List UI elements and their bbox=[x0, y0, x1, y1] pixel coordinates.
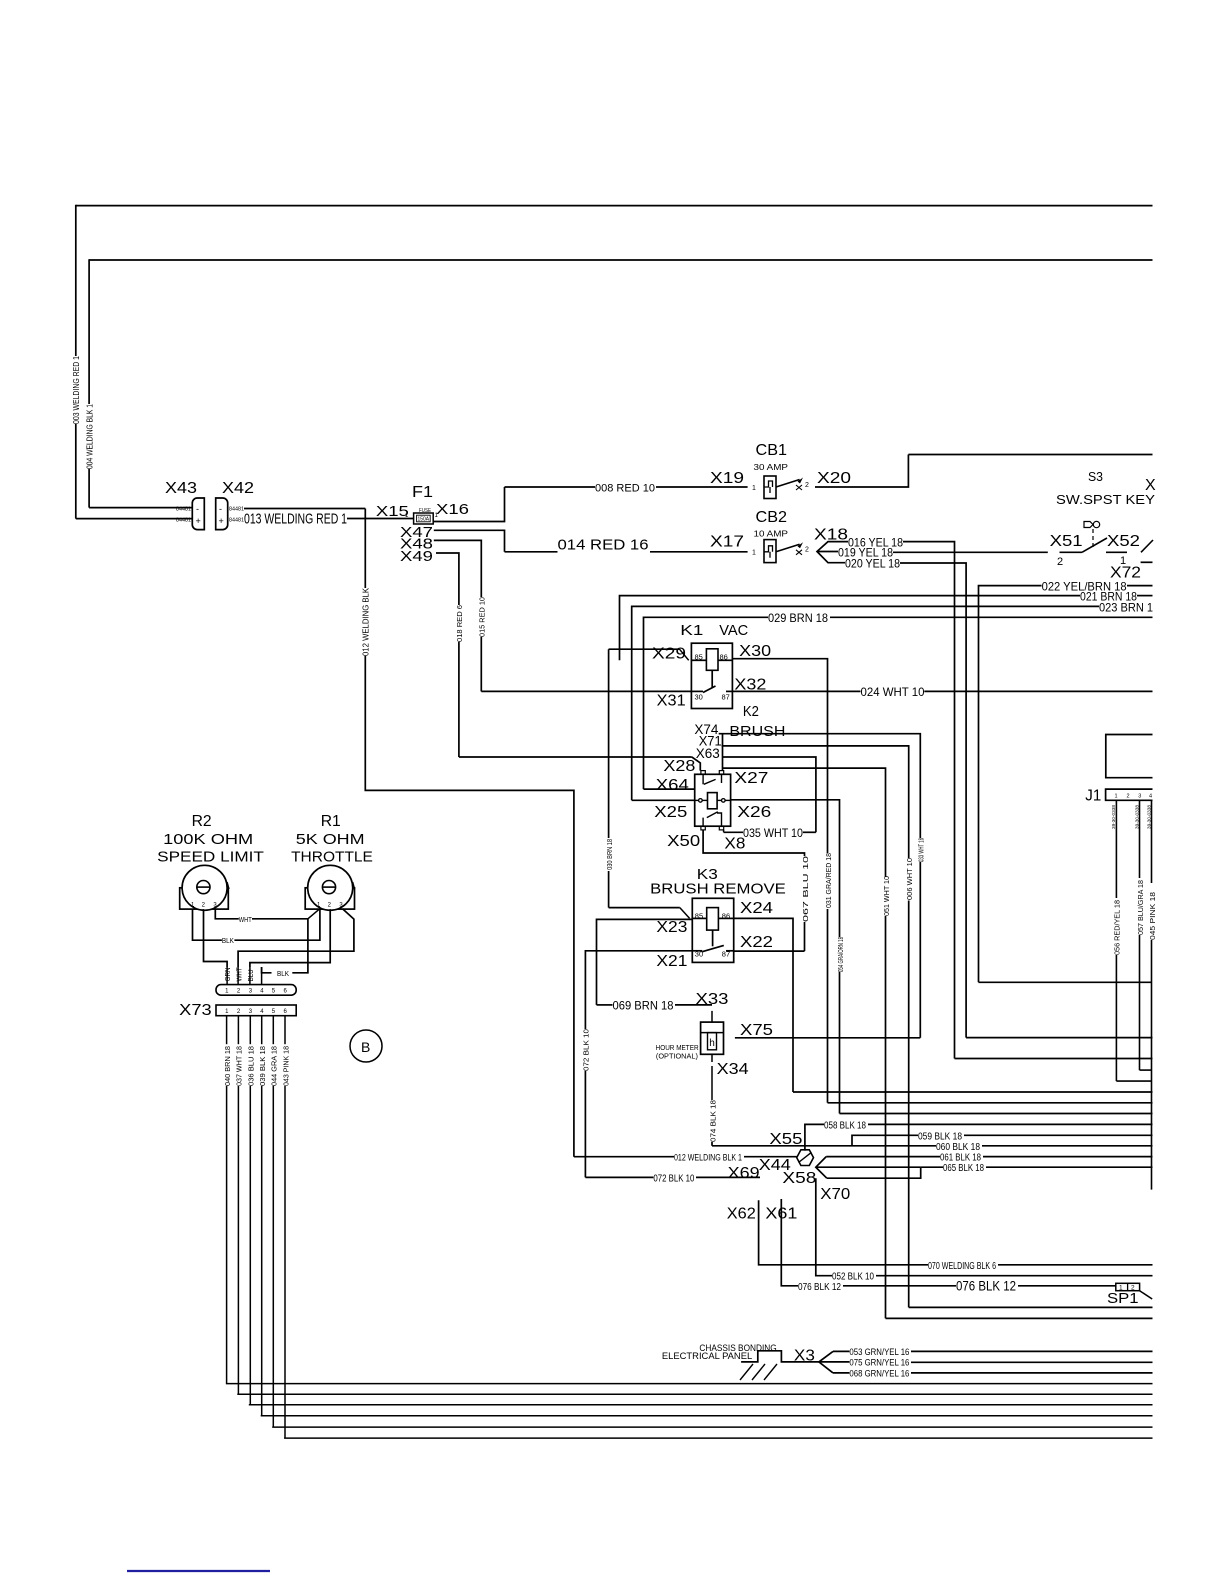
wire 039 BLK 18 from X73 pin 4 bbox=[261, 1016, 263, 1044]
wire X63 to 035 bbox=[723, 757, 816, 832]
svg-text:054 GRA/ORN 18: 054 GRA/ORN 18 bbox=[836, 937, 845, 972]
relay K3 coil tail bbox=[712, 930, 714, 946]
wire R1.3 to X73 pin2 (WHT) bbox=[238, 909, 354, 967]
wire 030 BRN vertical lower to K3 bbox=[608, 871, 610, 908]
svg-text:030 BRN 18: 030 BRN 18 bbox=[605, 839, 614, 870]
wire 020 YEL 18 to corner bbox=[900, 563, 966, 1038]
potentiometer R1 wiper notch bbox=[353, 882, 355, 889]
wire 003 vertical segment lower bbox=[75, 424, 77, 519]
svg-text:SW.SPST KEY: SW.SPST KEY bbox=[1056, 492, 1155, 507]
svg-text:004 WELDING BLK 1: 004 WELDING BLK 1 bbox=[85, 404, 94, 469]
svg-text:K1: K1 bbox=[680, 622, 703, 639]
relay K3 body bbox=[692, 898, 733, 962]
wire X47 to 014 line corner bbox=[434, 530, 505, 552]
svg-text:CB1: CB1 bbox=[756, 442, 788, 459]
svg-text:X16: X16 bbox=[436, 501, 469, 518]
svg-text:X26: X26 bbox=[737, 804, 771, 821]
svg-text:040 BRN 18: 040 BRN 18 bbox=[223, 1046, 232, 1086]
wire BLK R2.1 to R1.1 bbox=[193, 909, 222, 940]
relay K2 body bbox=[695, 774, 731, 826]
relay K2 bottom pins bbox=[701, 826, 705, 830]
svg-text:076 BLK 12: 076 BLK 12 bbox=[798, 1282, 841, 1293]
svg-text:+: + bbox=[196, 516, 201, 526]
svg-text:X75: X75 bbox=[740, 1022, 773, 1039]
wire 008 RED 10 bbox=[505, 486, 596, 488]
svg-text:012 WELDING BLK 1: 012 WELDING BLK 1 bbox=[674, 1153, 742, 1164]
svg-text:039 BLK 18: 039 BLK 18 bbox=[258, 1046, 267, 1086]
wire R2.2 to X73 pin1 (GRN) bbox=[204, 909, 228, 967]
svg-text:X25: X25 bbox=[654, 804, 687, 821]
svg-text:2: 2 bbox=[1127, 793, 1130, 799]
wire 014 RED 16 bbox=[505, 551, 558, 553]
wire J1 pin1 / 056 RED/YEL 18 bbox=[1115, 800, 1117, 898]
wire 016 YEL 18 to corner bbox=[903, 542, 955, 1059]
svg-text:037 WHT 18: 037 WHT 18 bbox=[235, 1046, 244, 1086]
wire J1 pin3 / 057 BLU/GRA 18 bbox=[1139, 800, 1141, 878]
wire 003 vertical segment upper bbox=[75, 205, 77, 356]
svg-text:036 BLU 18: 036 BLU 18 bbox=[247, 1046, 256, 1086]
wire X20 up to S3 feed line bbox=[815, 455, 908, 488]
svg-text:075 GRN/YEL 16: 075 GRN/YEL 16 bbox=[849, 1358, 909, 1369]
svg-text:X24: X24 bbox=[740, 900, 773, 917]
svg-text:B: B bbox=[361, 1039, 370, 1055]
svg-text:067 BLU 10: 067 BLU 10 bbox=[801, 856, 810, 922]
wire 036 BLU 18 from X73 pin 3 bbox=[249, 1016, 251, 1044]
wire 058 BLK 18 bbox=[805, 1124, 824, 1150]
svg-text:1: 1 bbox=[752, 485, 756, 492]
svg-text:020 YEL 18: 020 YEL 18 bbox=[845, 557, 900, 571]
svg-text:(OPTIONAL): (OPTIONAL) bbox=[656, 1052, 698, 1061]
connector X73 body bbox=[216, 1005, 296, 1016]
wire 022 YEL/BRN 18 bbox=[979, 586, 1042, 983]
svg-text:THROTTLE: THROTTLE bbox=[291, 849, 373, 866]
wire from X42 minus going to 012 corner bbox=[244, 508, 365, 510]
svg-text:39-30-0338: 39-30-0338 bbox=[1134, 804, 1139, 829]
wire 015 RED 10 from X48 to K1 30 bbox=[434, 540, 482, 597]
svg-text:BRUSH REMOVE: BRUSH REMOVE bbox=[650, 880, 786, 897]
wire 056 turn bbox=[1116, 1080, 1151, 1082]
wire 004 vertical segment lower bbox=[88, 469, 90, 508]
svg-text:J1: J1 bbox=[1085, 788, 1101, 805]
svg-text:X22: X22 bbox=[740, 934, 773, 951]
wire X61 / 076 BLK 12 bbox=[781, 1199, 798, 1286]
wire 024 WHT 10 from K1 87 bbox=[732, 690, 860, 692]
wire 051 turn to right edge bbox=[886, 1317, 1153, 1319]
svg-text:006 WHT 10: 006 WHT 10 bbox=[905, 858, 914, 900]
svg-text:061 BLK 18: 061 BLK 18 bbox=[940, 1153, 981, 1164]
connector X28 diagonal to K2 pin bbox=[692, 757, 701, 771]
svg-text:2: 2 bbox=[1057, 556, 1063, 568]
svg-text:060 BLK 18: 060 BLK 18 bbox=[936, 1142, 980, 1153]
wire J1 pin4 / 045 PINK 18 trunk bbox=[1151, 800, 1153, 883]
wire X23/069 from K3 85 bbox=[597, 919, 693, 1005]
wire X75 bbox=[735, 1037, 920, 1039]
svg-text:018 RED 6: 018 RED 6 bbox=[455, 605, 464, 642]
wire 029 BRN 18 bbox=[644, 617, 769, 789]
svg-text:070 WELDING BLK 6: 070 WELDING BLK 6 bbox=[928, 1261, 996, 1272]
wire 016 turn to right edge bbox=[955, 1058, 1153, 1060]
svg-text:074 BLK 18: 074 BLK 18 bbox=[708, 1100, 717, 1142]
fuse F1 body 150A bbox=[414, 513, 434, 524]
svg-text:X3: X3 bbox=[794, 1348, 815, 1365]
hour meter top lead bbox=[711, 1011, 713, 1022]
svg-text:-: - bbox=[196, 504, 199, 514]
wire 037 WHT 18 from X73 pin 2 bbox=[237, 1016, 239, 1044]
hour meter bottom lead / 074 BLK 18 bbox=[711, 1054, 713, 1062]
relay K1 body bbox=[691, 643, 732, 708]
svg-text:-: - bbox=[219, 504, 222, 514]
svg-text:X34: X34 bbox=[717, 1061, 749, 1078]
hour meter body bbox=[701, 1022, 724, 1054]
svg-text:024 WHT 10: 024 WHT 10 bbox=[861, 685, 925, 699]
pigtail connector above X73 bbox=[226, 967, 228, 985]
svg-text:X73: X73 bbox=[179, 1002, 212, 1019]
wire X22 from K3 87 to 067 bbox=[734, 950, 805, 952]
svg-text:39-30-0338: 39-30-0338 bbox=[1111, 804, 1116, 829]
svg-text:043 PINK 18: 043 PINK 18 bbox=[281, 1046, 290, 1086]
svg-text:5K OHM: 5K OHM bbox=[296, 831, 365, 848]
svg-text:3: 3 bbox=[1138, 793, 1141, 799]
svg-text:X49: X49 bbox=[400, 548, 433, 565]
svg-text:X28: X28 bbox=[663, 758, 695, 775]
relay K3 pin30 stub bbox=[692, 950, 702, 952]
svg-text:012 WELDING BLK: 012 WELDING BLK bbox=[362, 587, 371, 656]
relay K2 coil circles bbox=[699, 799, 703, 803]
wire X70 / 052 BLK 10 bbox=[816, 1178, 832, 1276]
wire 072 BLK 10 horizontal bbox=[585, 1176, 653, 1178]
wire 074 to X55 bus bbox=[712, 1145, 805, 1147]
connector X29 diagonal bbox=[680, 649, 689, 660]
wire 003 WELDING RED 1 (top horizontal) bbox=[76, 205, 1153, 207]
relay K3 blade bbox=[702, 945, 724, 951]
wire 031 turn to right edge bbox=[828, 1102, 1153, 1104]
svg-text:003 WELDING RED 1: 003 WELDING RED 1 bbox=[72, 356, 81, 424]
module box above J1 bbox=[1106, 735, 1153, 778]
splice SP1 diagonal bbox=[1140, 1291, 1153, 1299]
wire 059 BLK 18 bbox=[852, 1135, 918, 1146]
svg-text:035 WHT 10: 035 WHT 10 bbox=[743, 826, 803, 840]
svg-text:ELECTRICAL PANEL: ELECTRICAL PANEL bbox=[662, 1351, 752, 1361]
breaker CB2 blade and contact bbox=[776, 544, 800, 552]
svg-text:BLU: BLU bbox=[248, 969, 255, 981]
wire 020 turn to right edge bbox=[966, 1037, 1152, 1039]
wire 057 turn bbox=[1140, 1069, 1152, 1071]
wire 035 WHT 10 from X8 bbox=[723, 830, 725, 832]
relay K1 coil bbox=[706, 649, 718, 671]
wire 021 BRN 18 bbox=[620, 596, 1081, 661]
wire BLK riser to X73 pin4 bbox=[292, 919, 308, 973]
svg-text:84481: 84481 bbox=[176, 507, 191, 513]
svg-text:033 WHT 18: 033 WHT 18 bbox=[917, 838, 926, 862]
svg-text:K2: K2 bbox=[743, 703, 759, 720]
svg-text:X20: X20 bbox=[817, 470, 851, 487]
connector X72 stub bbox=[1141, 561, 1153, 563]
svg-text:h: h bbox=[709, 1038, 715, 1049]
potentiometer R2 wiper notch bbox=[227, 882, 229, 889]
relay K2 top blade bbox=[702, 774, 704, 784]
wire 004 to X43 minus pin bbox=[89, 507, 193, 509]
svg-text:029 BRN 18: 029 BRN 18 bbox=[768, 611, 828, 625]
svg-text:068 GRN/YEL 16: 068 GRN/YEL 16 bbox=[849, 1369, 909, 1380]
svg-text:WHT: WHT bbox=[239, 915, 252, 924]
breaker CB1 body bbox=[764, 476, 776, 499]
wire 030 BRN 18 upper corner bbox=[609, 648, 680, 650]
svg-text:CB2: CB2 bbox=[756, 509, 788, 526]
wire X74 / 033 WHT 18 bbox=[719, 734, 921, 838]
wire X24 turn to right edge bbox=[793, 1091, 1153, 1093]
switch S3 key symbol bbox=[1084, 522, 1093, 528]
wire X26 / 054 GRA/ORN 18 bbox=[731, 800, 840, 937]
relay K1 pin87 stub bbox=[726, 690, 732, 692]
wire 061 BLK 18 bbox=[826, 1156, 940, 1158]
svg-text:BLK: BLK bbox=[222, 936, 234, 945]
svg-text:053 GRN/YEL 16: 053 GRN/YEL 16 bbox=[849, 1347, 909, 1358]
wire X30 / 031 GRA/RED 18 from K1 86 bbox=[732, 659, 827, 853]
ground symbol hatches bbox=[740, 1364, 753, 1380]
svg-text:X27: X27 bbox=[734, 770, 768, 787]
wire 004 vertical segment upper bbox=[88, 259, 90, 404]
svg-text:065 BLK 18: 065 BLK 18 bbox=[943, 1163, 984, 1174]
svg-text:059 BLK 18: 059 BLK 18 bbox=[918, 1132, 962, 1143]
wire 022 turn to right edge bbox=[979, 981, 1152, 983]
svg-text:R2: R2 bbox=[192, 813, 212, 830]
svg-text:30: 30 bbox=[695, 693, 703, 702]
breaker CB1 blade and contact bbox=[776, 480, 800, 488]
svg-text:X58: X58 bbox=[782, 1170, 816, 1187]
svg-text:100K OHM: 100K OHM bbox=[163, 831, 253, 848]
wire X21 / 072 BLK 10 from K3 30 bbox=[585, 951, 692, 1029]
svg-text:X52: X52 bbox=[1107, 533, 1140, 550]
wire WHT R2.3 bus bbox=[215, 909, 239, 919]
potentiometer R2 body bbox=[180, 888, 229, 909]
svg-text:SPEED LIMIT: SPEED LIMIT bbox=[157, 849, 264, 866]
relay K3 pin leads bbox=[692, 917, 706, 919]
ground symbol step bbox=[741, 1351, 819, 1362]
svg-text:031 GRA/RED 18: 031 GRA/RED 18 bbox=[824, 853, 833, 908]
svg-text:+: + bbox=[219, 516, 224, 526]
svg-text:X50: X50 bbox=[667, 833, 700, 850]
relay K3 coil bbox=[707, 908, 719, 931]
svg-text:056 RED/YEL 18: 056 RED/YEL 18 bbox=[1113, 900, 1122, 955]
svg-text:BRUSH: BRUSH bbox=[729, 723, 785, 740]
wire X50 to 067 link bbox=[703, 830, 804, 856]
switch S3 pole2 contact bbox=[1106, 551, 1127, 553]
switch S3 pole2 blade (cut) bbox=[1141, 540, 1153, 552]
svg-text:2: 2 bbox=[805, 547, 809, 554]
wire 004 WELDING BLK 1 (second horizontal) bbox=[89, 259, 1152, 261]
wire 030 BRN vertical upper bbox=[608, 649, 610, 838]
wire 054 turn to right edge bbox=[840, 1113, 1153, 1115]
svg-text:BLK: BLK bbox=[277, 969, 289, 978]
svg-text:2: 2 bbox=[805, 482, 809, 489]
relay K2 bottom blade bbox=[702, 818, 704, 827]
svg-text:X62: X62 bbox=[727, 1205, 756, 1222]
wire 018 RED 6 from X49 to X28 bbox=[436, 553, 459, 605]
svg-text:150A: 150A bbox=[418, 517, 430, 523]
wire 012 WELDING BLK 1 horizontal bbox=[574, 1156, 674, 1158]
wire 012 WELDING BLK vertical bbox=[364, 509, 366, 589]
relay K1 pin 85 lead bbox=[691, 659, 706, 661]
connector X3 fan chevron bbox=[819, 1351, 833, 1373]
svg-text:058 BLK 18: 058 BLK 18 bbox=[824, 1121, 866, 1132]
svg-text:1: 1 bbox=[752, 550, 756, 557]
wire 043 PINK 18 from X73 pin 6 bbox=[284, 1016, 286, 1044]
svg-text:4: 4 bbox=[1149, 793, 1152, 799]
relay K2 coil bbox=[708, 793, 718, 809]
svg-text:X55: X55 bbox=[769, 1131, 802, 1148]
svg-text:X21: X21 bbox=[656, 953, 687, 970]
relay K1 pin 86 lead bbox=[718, 659, 732, 661]
wire X62 / 070 WELDING BLK 6 bbox=[759, 1200, 928, 1265]
wire X27 / 051 WHT 10 bbox=[723, 768, 886, 877]
ground stud X44 hexagon bbox=[797, 1150, 814, 1166]
svg-text:014 RED 16: 014 RED 16 bbox=[558, 537, 649, 554]
relay K1 pin30 stub bbox=[691, 690, 703, 692]
svg-text:023 BRN 1: 023 BRN 1 bbox=[1099, 601, 1153, 615]
K2 top-right riser bbox=[722, 734, 724, 771]
svg-text:VAC: VAC bbox=[719, 622, 748, 639]
wire 040 BRN 18 from X73 pin 1 bbox=[226, 1016, 228, 1044]
svg-text:X30: X30 bbox=[739, 643, 771, 660]
svg-text:1: 1 bbox=[1115, 793, 1118, 799]
breaker CB2 body bbox=[764, 540, 776, 563]
wire to S3 key switch (top feed) bbox=[908, 454, 1152, 456]
svg-text:X33: X33 bbox=[696, 991, 729, 1008]
wire 065 BLK 18 loop bbox=[827, 1167, 921, 1178]
svg-text:X17: X17 bbox=[710, 534, 744, 551]
svg-text:045 PINK 18: 045 PINK 18 bbox=[1148, 892, 1157, 940]
connector X23 diagonal bbox=[680, 908, 690, 919]
wire 060 BLK 18 bus bbox=[805, 1145, 936, 1147]
wire X71 / 006 WHT 10 bbox=[722, 746, 909, 858]
svg-text:X31: X31 bbox=[657, 693, 686, 710]
svg-text:84481: 84481 bbox=[229, 507, 244, 513]
wire X24 from K3 86 bbox=[734, 918, 793, 1092]
wire 013 to fuse F1 bbox=[347, 518, 414, 520]
relay K1 coil tail bbox=[711, 670, 713, 687]
switch S3 pole1 contact and blade bbox=[1060, 551, 1083, 553]
wire 030 to K3 X23 junction bbox=[609, 907, 680, 909]
splice SP1 box bbox=[1116, 1283, 1140, 1290]
svg-text:X43: X43 bbox=[165, 480, 197, 497]
svg-text:X42: X42 bbox=[222, 480, 254, 497]
wire 023 BRN 18 bbox=[632, 606, 1099, 800]
connector X43 body bbox=[192, 498, 204, 530]
svg-text:X15: X15 bbox=[376, 503, 409, 520]
svg-text:X51: X51 bbox=[1050, 533, 1083, 550]
svg-text:30 AMP: 30 AMP bbox=[754, 463, 789, 472]
svg-text:X19: X19 bbox=[710, 470, 744, 487]
svg-text:R1: R1 bbox=[321, 813, 341, 830]
svg-text:X64: X64 bbox=[656, 777, 689, 794]
svg-text:057 BLU/GRA 18: 057 BLU/GRA 18 bbox=[1136, 880, 1145, 935]
svg-text:S3: S3 bbox=[1088, 469, 1103, 484]
svg-text:072 BLK 10: 072 BLK 10 bbox=[653, 1174, 694, 1185]
connector X18 fanout chevron bbox=[817, 542, 848, 563]
svg-text:008 RED 10: 008 RED 10 bbox=[595, 483, 655, 495]
svg-text:072 BLK 10: 072 BLK 10 bbox=[582, 1029, 591, 1071]
svg-text:013 WELDING RED 1: 013 WELDING RED 1 bbox=[244, 511, 347, 528]
wire 006 turn to right edge bbox=[909, 1306, 1153, 1308]
wire 053 GRN/YEL 16 bbox=[833, 1350, 849, 1352]
wire X25 from 023 vertical bbox=[632, 799, 695, 801]
relay K3 pin87 stub bbox=[726, 950, 734, 952]
potentiometer R1 body bbox=[305, 888, 354, 909]
svg-text:X29: X29 bbox=[652, 646, 686, 663]
svg-text:X69: X69 bbox=[728, 1165, 760, 1182]
svg-text:X63: X63 bbox=[696, 745, 720, 761]
wire X64 from 029 vertical bbox=[644, 788, 695, 790]
wire 044 GRA 18 from X73 pin 5 bbox=[272, 1016, 274, 1044]
wire 068 GRN/YEL 16 bbox=[833, 1372, 849, 1374]
svg-text:015 RED 10: 015 RED 10 bbox=[478, 597, 487, 637]
svg-text:069 BRN 18: 069 BRN 18 bbox=[613, 999, 674, 1013]
svg-text:GRN: GRN bbox=[225, 967, 232, 981]
svg-text:10 AMP: 10 AMP bbox=[754, 530, 789, 539]
relay K1 switch blade bbox=[703, 686, 716, 693]
connector X58 chevron bbox=[816, 1157, 827, 1179]
svg-text:X70: X70 bbox=[820, 1186, 850, 1203]
svg-text:84481: 84481 bbox=[229, 518, 244, 524]
svg-text:F1: F1 bbox=[412, 484, 433, 501]
svg-text:076 BLK 12: 076 BLK 12 bbox=[956, 1278, 1016, 1294]
wire fuse output up to 008 line bbox=[433, 487, 504, 522]
svg-text:051 WHT 10: 051 WHT 10 bbox=[882, 876, 891, 916]
switch S3 actuator dashed link bbox=[1092, 529, 1094, 548]
svg-text:X23: X23 bbox=[656, 919, 687, 936]
wire 031 vertical lower bbox=[827, 909, 829, 1103]
wire 069 BRN 18 bbox=[597, 1004, 613, 1006]
connector R1 pin1 diagonal bbox=[308, 909, 320, 919]
wire 019 YEL 18 to key switch X51 bbox=[893, 551, 1048, 553]
connector X42 body bbox=[216, 498, 228, 530]
wire 067 lower to X22 bbox=[804, 922, 806, 951]
relay K2 top pins bbox=[701, 771, 705, 775]
blue underline mark bbox=[127, 1570, 270, 1572]
svg-text:SP1: SP1 bbox=[1107, 1290, 1139, 1307]
wire 003 to X43 plus pin bbox=[76, 518, 193, 520]
revision circle B bbox=[350, 1030, 382, 1062]
wire R1.2 to X73 pin3 (BLU) bbox=[250, 909, 330, 967]
svg-text:044 GRA 18: 044 GRA 18 bbox=[270, 1046, 279, 1086]
connector J1 body bbox=[1106, 789, 1153, 800]
svg-text:87: 87 bbox=[722, 693, 730, 702]
svg-text:84481: 84481 bbox=[176, 518, 191, 524]
